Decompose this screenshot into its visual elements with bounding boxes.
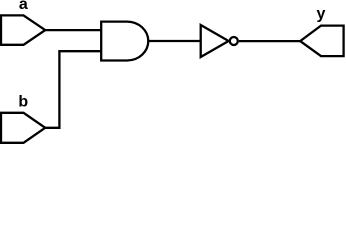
input port b [1, 113, 45, 143]
AND gate [101, 22, 148, 61]
NOT gate triangle [201, 25, 229, 57]
wire AND output to NOT input [148, 40, 200, 42]
svg-text:a: a [19, 0, 28, 13]
wire b to AND gate input B [45, 51, 101, 128]
svg-text:b: b [18, 94, 28, 111]
input port a [1, 15, 45, 44]
wire a to AND gate input A [45, 29, 101, 31]
NOT gate bubble [230, 37, 238, 45]
svg-text:y: y [317, 6, 326, 23]
wire NOT output to port y [239, 40, 300, 42]
output port y [300, 26, 343, 56]
